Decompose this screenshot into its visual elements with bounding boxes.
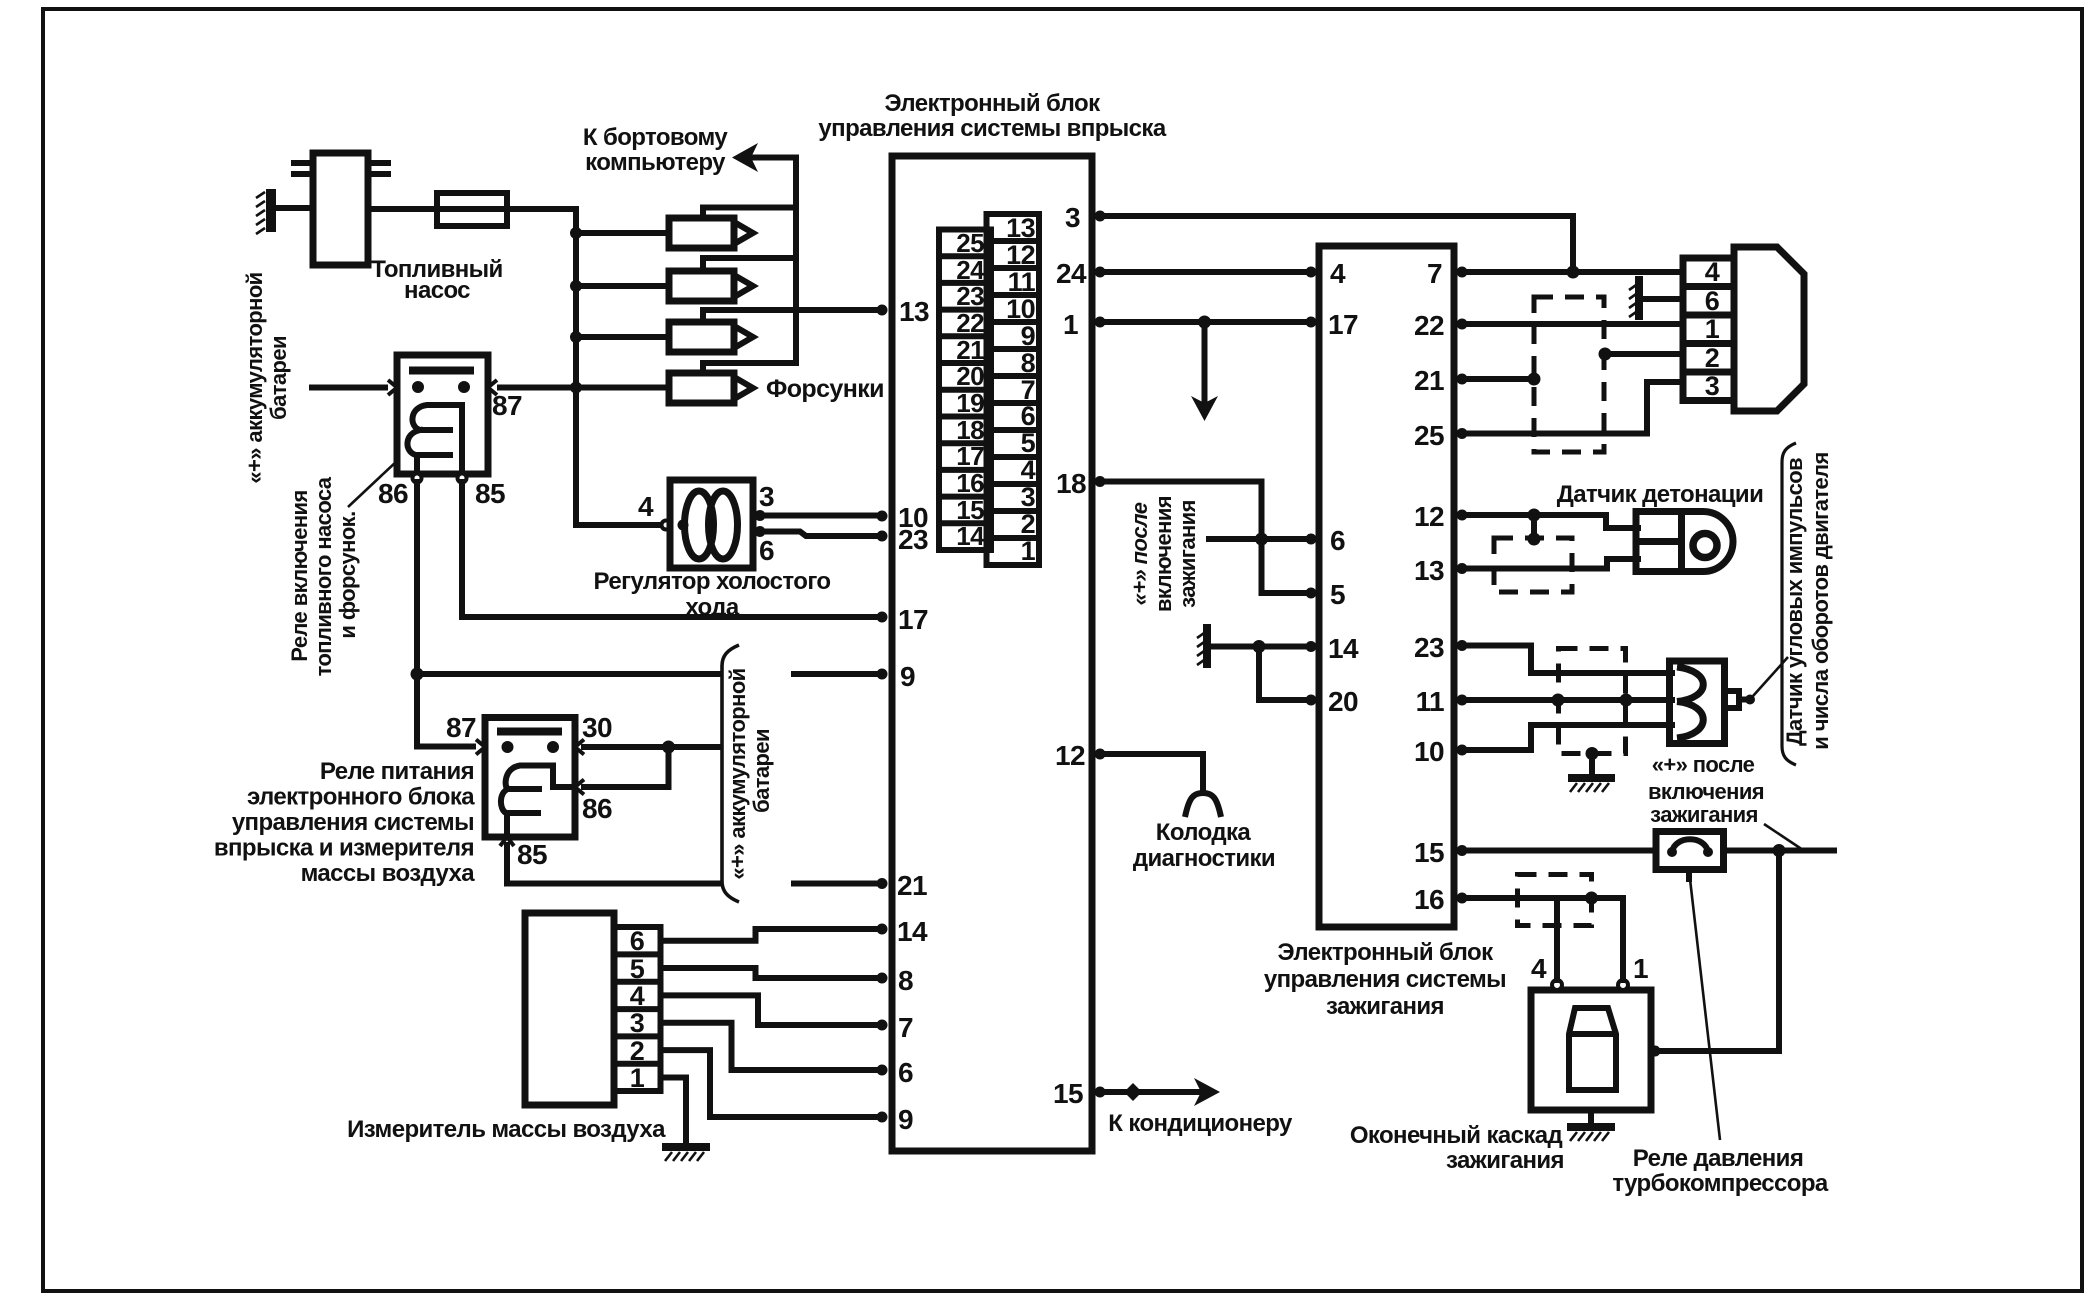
wire ground to fuel pump: [270, 205, 313, 211]
svg-text:8: 8: [898, 965, 913, 996]
arrow down from pin1 wire: [1191, 322, 1218, 421]
pin 5 marker U2: [1306, 579, 1346, 610]
impulse sensor: [1670, 661, 1756, 744]
diagnostic connector symbol: [1185, 793, 1221, 817]
svg-text:и форсунок.: и форсунок.: [335, 511, 360, 638]
svg-text:Колодка: Колодка: [1156, 819, 1252, 846]
pin 20 marker U2: [1306, 686, 1358, 717]
svg-text:1: 1: [1063, 309, 1078, 340]
wire meter pin2 to ECU pin9: [661, 1050, 879, 1117]
label Датчик угловых импульсов и числа оборотов двигателя (rotated): [1782, 452, 1833, 749]
svg-text:зажигания: зажигания: [1326, 993, 1444, 1020]
connector mark on A/C wire: [1124, 1083, 1142, 1101]
svg-text:22: 22: [1414, 310, 1444, 341]
svg-text:Реле питания: Реле питания: [320, 758, 474, 785]
label Оконечный каскад зажигания: [1350, 1122, 1564, 1174]
wire U2 pin11 to impulse sensor: [1462, 697, 1672, 703]
node pin16 branch: [1585, 892, 1598, 905]
svg-text:4: 4: [630, 981, 645, 1011]
pin 12 marker U1 right: [1055, 740, 1105, 771]
shield dashed box 3: [1559, 649, 1626, 754]
label Измеритель массы воздуха: [347, 1116, 666, 1143]
pin 23 marker U2 right: [1414, 632, 1467, 663]
svg-text:управления системы: управления системы: [232, 809, 474, 836]
svg-text:25: 25: [1414, 420, 1444, 451]
node turbo relay output: [1773, 844, 1786, 857]
wire relay 87 to injector 4 feed: [497, 385, 669, 391]
svg-text:86: 86: [582, 793, 612, 824]
svg-text:К кондиционеру: К кондиционеру: [1108, 1110, 1293, 1137]
svg-text:16: 16: [1414, 884, 1444, 915]
svg-text:24: 24: [1056, 258, 1087, 289]
pin 4 label final stage: [1531, 953, 1547, 984]
label «+» аккумуляторной батареи (bracket): [725, 668, 774, 879]
wire U1 pin15 to air conditioner: [1100, 1089, 1206, 1095]
pin 11 marker U2 right: [1416, 686, 1468, 717]
svg-text:1: 1: [1021, 536, 1036, 566]
svg-text:электронного блока: электронного блока: [247, 784, 475, 811]
svg-text:1: 1: [1705, 314, 1720, 344]
wire meter pin5 to ECU pin8: [661, 968, 879, 978]
wire U2 pin10 to impulse sensor: [1462, 725, 1672, 750]
node bus-inj4: [570, 382, 582, 394]
svg-text:«+» после: «+» после: [1652, 752, 1755, 777]
svg-text:управления системы впрыска: управления системы впрыска: [818, 115, 1166, 142]
label «+» после включения зажигания (rotated): [1127, 496, 1200, 612]
svg-text:Оконечный каскад: Оконечный каскад: [1350, 1122, 1563, 1149]
svg-text:1: 1: [1633, 953, 1648, 984]
ground final stage: [1570, 1110, 1611, 1141]
node bus-inj1: [570, 227, 582, 239]
svg-text:87: 87: [492, 390, 522, 421]
svg-text:25: 25: [956, 228, 984, 258]
node K2 86-30 junction: [662, 741, 675, 754]
node pin7/pin3 junction: [1567, 266, 1580, 279]
svg-text:3: 3: [759, 481, 774, 512]
pin 3 marker U1 right: [1065, 202, 1105, 233]
shield dashed box 4: [1518, 875, 1592, 926]
svg-text:6: 6: [1330, 525, 1345, 556]
pin 87 label K2: [446, 712, 476, 743]
wire U2 pin22 to connector pin1: [1462, 321, 1683, 327]
wire injector output bus to on-board computer: [748, 158, 796, 364]
node relay1-86 branch: [411, 668, 424, 681]
svg-text:Реле включения: Реле включения: [287, 490, 312, 661]
SEC-BOTTOM: [214, 645, 1661, 1174]
wire U2 pin12 to knock sensor: [1462, 515, 1638, 528]
wire K2 pin85 to ECU pin21: [507, 845, 878, 884]
bracket battery plus: [722, 645, 739, 902]
pin 1 marker U1 right: [1063, 309, 1105, 340]
svg-text:включения: включения: [1151, 496, 1176, 612]
svg-text:15: 15: [1053, 1078, 1083, 1109]
pin 85 label K2: [517, 839, 547, 870]
svg-text:7: 7: [1427, 258, 1442, 289]
svg-text:17: 17: [898, 604, 928, 635]
svg-text:14: 14: [897, 916, 928, 947]
pin 10 marker U2 right: [1414, 736, 1467, 767]
svg-text:15: 15: [1414, 837, 1444, 868]
node pin14 ground branch: [1253, 640, 1266, 653]
pin 14 marker U2: [1306, 633, 1359, 664]
svg-text:4: 4: [1021, 455, 1036, 485]
label Реле давления турбокомпрессора: [1612, 1145, 1829, 1197]
svg-text:3: 3: [1065, 202, 1080, 233]
leader from label to wire: [1764, 824, 1803, 850]
pin 12 marker U2 right: [1414, 501, 1467, 532]
SEC-MID: [1100, 216, 1573, 1137]
pin 85 label K1: [475, 478, 505, 509]
injector 4: [669, 363, 796, 403]
svg-text:Электронный блок: Электронный блок: [885, 90, 1102, 117]
svg-text:Измеритель массы воздуха: Измеритель массы воздуха: [347, 1116, 666, 1143]
connector body polygon: [1734, 247, 1804, 411]
svg-text:21: 21: [1414, 365, 1444, 396]
svg-text:Регулятор холостого: Регулятор холостого: [594, 568, 831, 595]
svg-text:12: 12: [1055, 740, 1085, 771]
pin 13 marker U2 right: [1414, 555, 1467, 586]
svg-text:зажигания: зажигания: [1650, 802, 1758, 827]
svg-text:Реле давления: Реле давления: [1633, 1145, 1803, 1172]
pin 7 marker U1: [877, 1012, 914, 1043]
wire ground to U2 pin14: [1210, 644, 1313, 650]
pin 10 marker U1: [877, 502, 928, 533]
arrow to on-board computer: [732, 143, 758, 172]
wire battery plus to relay 1: [312, 385, 390, 391]
callout line impulse sensor: [1753, 657, 1788, 696]
svg-text:массы воздуха: массы воздуха: [301, 860, 476, 887]
svg-text:12: 12: [1414, 501, 1444, 532]
ECU U2 ignition control unit: [1319, 246, 1454, 927]
ground at fuel pump: [256, 189, 271, 234]
node bus-inj2: [570, 280, 582, 292]
node shield3 ground: [1586, 747, 1599, 760]
node bus-inj3: [570, 331, 582, 343]
svg-text:5: 5: [630, 954, 645, 984]
svg-text:5: 5: [1021, 428, 1036, 458]
node on shield box 2: [1528, 533, 1541, 546]
svg-text:хода: хода: [685, 594, 740, 621]
relay K2 power supply relay: [476, 718, 584, 847]
pin 30 label K2: [582, 712, 612, 743]
wire U2 pin23 to impulse sensor: [1462, 646, 1672, 674]
wire meter pin1 to ground: [661, 1078, 687, 1146]
svg-text:«+» аккумуляторной: «+» аккумуляторной: [725, 668, 750, 879]
svg-text:4: 4: [1531, 953, 1547, 984]
SEC-ECU1: [818, 90, 1166, 1151]
relay K1 fuel pump and injectors relay: [388, 355, 497, 483]
wire battery plus row to ECU pin 9: [417, 671, 878, 677]
pin 9b marker U1: [877, 1104, 914, 1135]
label Реле включения топливного насоса и форсунок: [287, 461, 397, 676]
pin 6 label regulator: [759, 535, 774, 566]
svg-text:диагностики: диагностики: [1133, 845, 1275, 872]
wire K2 pin30 to battery bracket: [584, 744, 720, 750]
label Реле питания электронного блока управления системы впрыска и измерителя массы воздуха: [214, 758, 475, 887]
svg-text:4: 4: [638, 491, 654, 522]
fuel pump: [294, 153, 388, 265]
label К бортовому компьютеру: [583, 124, 728, 176]
svg-text:11: 11: [1008, 267, 1036, 297]
shield dashed box 1: [1534, 297, 1604, 452]
svg-text:6: 6: [1705, 286, 1720, 316]
svg-text:зажигания: зажигания: [1175, 500, 1200, 608]
pin 7 marker U2 right: [1427, 258, 1467, 289]
svg-text:3: 3: [1705, 371, 1720, 401]
label Датчик детонации: [1557, 481, 1763, 508]
svg-text:10: 10: [1414, 736, 1444, 767]
svg-text:турбокомпрессора: турбокомпрессора: [1612, 1170, 1829, 1197]
svg-text:12: 12: [1006, 240, 1035, 270]
label Электронный блок управления системы впрыска: [818, 90, 1166, 142]
svg-text:7: 7: [898, 1012, 913, 1043]
wire U1 pin24 to U2 pin4: [1100, 269, 1313, 275]
pin 23 marker U1: [877, 524, 928, 555]
wire U1 pin18 to U2 pins 6 and 5: [1100, 482, 1313, 594]
wire injector 3 output to ECU pin 13: [703, 307, 878, 313]
svg-text:Датчик детонации: Датчик детонации: [1557, 481, 1763, 508]
wire U1 pin12 to diagnostic connector: [1100, 754, 1203, 788]
svg-text:4: 4: [1705, 257, 1720, 287]
label Топливный насос: [371, 256, 502, 304]
leader turbo relay to its label: [1690, 879, 1720, 1140]
wire ground to connector pin6: [1642, 296, 1683, 302]
turbo pressure relay switch: [1656, 832, 1724, 880]
wire U1 pin1 to U2 pin17: [1100, 319, 1313, 325]
svg-text:Датчик угловых импульсов: Датчик угловых импульсов: [1782, 458, 1807, 746]
svg-text:8: 8: [1021, 348, 1036, 378]
ground at connector pin6: [1629, 280, 1639, 317]
svg-text:Форсунки: Форсунки: [766, 375, 884, 403]
pin 17 marker U2: [1306, 309, 1358, 340]
svg-text:23: 23: [1414, 632, 1444, 663]
svg-text:компьютеру: компьютеру: [585, 149, 726, 176]
wire U1 pin3 to sensor connector branch: [1100, 216, 1573, 272]
svg-text:насос: насос: [404, 277, 470, 304]
wire U2 pin13 to knock sensor: [1462, 559, 1638, 569]
pin 4 label regulator: [638, 491, 654, 522]
pin 16 marker U2 right: [1414, 884, 1467, 915]
wire meter pin3 to ECU pin6: [661, 1023, 879, 1070]
svg-text:и числа оборотов двигателя: и числа оборотов двигателя: [1808, 452, 1833, 749]
svg-text:19: 19: [956, 388, 984, 418]
wire shield stub down: [1531, 515, 1537, 538]
svg-text:6: 6: [1021, 401, 1036, 431]
wire U2 pin15 through turbo relay: [1462, 848, 1834, 854]
pin 21 marker U1: [877, 870, 927, 901]
wire meter pin4 to ECU pin7: [661, 995, 879, 1025]
pin 6 marker U2: [1306, 525, 1346, 556]
wire injector 1 feed: [576, 230, 669, 236]
connector pin table right column pins 13-1: [987, 213, 1040, 566]
shield dashed box 2: [1494, 538, 1572, 592]
svg-text:6: 6: [759, 535, 774, 566]
svg-text:22: 22: [956, 308, 984, 338]
wire U2 pin16 to final stage: [1462, 898, 1623, 980]
node pin18 branch: [1255, 533, 1268, 546]
pin 86 label K2: [582, 793, 612, 824]
svg-text:14: 14: [1328, 633, 1359, 664]
svg-text:9: 9: [898, 1104, 913, 1135]
pin 4 marker U2: [1306, 258, 1347, 289]
svg-text:6: 6: [630, 926, 645, 956]
pin 22 marker U2 right: [1414, 310, 1467, 341]
label Регулятор холостого хода: [594, 568, 831, 621]
svg-text:батареи: батареи: [749, 729, 774, 813]
svg-text:2: 2: [630, 1036, 644, 1066]
wire injector 3 feed: [576, 334, 669, 340]
pin 1 label final stage: [1633, 953, 1648, 984]
svg-text:5: 5: [1330, 579, 1345, 610]
node on pin1 wire: [1198, 316, 1211, 329]
ground under shield 3: [1570, 754, 1611, 793]
wire branch to U2 pin20: [1259, 647, 1313, 701]
ECU U1 injection control unit: [892, 156, 1092, 1151]
svg-text:«+» аккумуляторной: «+» аккумуляторной: [242, 272, 267, 483]
injector 2: [669, 258, 796, 301]
svg-text:23: 23: [898, 524, 928, 555]
svg-text:включения: включения: [1648, 779, 1764, 804]
svg-text:17: 17: [956, 441, 984, 471]
svg-text:23: 23: [956, 281, 984, 311]
wire meter pin6 to ECU pin14: [661, 929, 879, 941]
fuse: [437, 193, 507, 226]
svg-text:2: 2: [1021, 509, 1035, 539]
svg-text:14: 14: [956, 521, 985, 551]
svg-text:зажигания: зажигания: [1446, 1147, 1564, 1174]
svg-text:30: 30: [582, 712, 612, 743]
svg-text:11: 11: [1416, 686, 1444, 717]
SEC-RIGHT: [1462, 247, 1834, 1197]
pin 13 marker U1: [877, 296, 929, 327]
svg-text:топливного насоса: топливного насоса: [311, 476, 336, 676]
wire U2 pin25 to connector pin3: [1462, 382, 1683, 434]
node pin11 shield left: [1552, 694, 1565, 707]
wire U2 pin21 to shield: [1462, 376, 1534, 382]
svg-text:16: 16: [956, 468, 984, 498]
pin 25 marker U2 right: [1414, 420, 1467, 451]
pin 87 label K1: [492, 390, 522, 421]
injector 3: [669, 310, 753, 352]
arrow to air conditioner: [1194, 1078, 1220, 1106]
svg-text:Электронный блок: Электронный блок: [1278, 939, 1495, 966]
svg-text:85: 85: [517, 839, 547, 870]
wire injector 2 feed: [576, 283, 669, 289]
svg-text:9: 9: [1021, 321, 1036, 351]
bracket for impulse sensor label: [1782, 443, 1796, 765]
knock sensor: [1636, 512, 1733, 572]
svg-text:«+» после: «+» после: [1127, 502, 1152, 605]
wire pump to fuse to bus: [368, 206, 576, 212]
ground at U2 pin 14: [1197, 628, 1207, 665]
svg-text:10: 10: [1006, 294, 1035, 324]
svg-text:4: 4: [1330, 258, 1346, 289]
svg-text:К бортовому: К бортовому: [583, 124, 728, 151]
pin 9a marker U1: [877, 661, 916, 692]
node shield pin2: [1599, 348, 1612, 361]
pin 6 marker U1: [877, 1057, 914, 1088]
svg-text:86: 86: [378, 478, 408, 509]
pin 86 label K1: [378, 478, 408, 509]
wire U2 pin7 to connector pin4: [1462, 269, 1683, 275]
pin 21 marker U2 right: [1414, 365, 1467, 396]
svg-text:3: 3: [1021, 482, 1036, 512]
svg-text:87: 87: [446, 712, 476, 743]
svg-text:1: 1: [630, 1063, 645, 1093]
injector 1: [669, 208, 796, 249]
svg-text:13: 13: [899, 296, 929, 327]
node pin21 shield: [1528, 373, 1541, 386]
node pin11 shield right: [1620, 694, 1633, 707]
svg-text:2: 2: [1705, 343, 1719, 373]
wire shield to connector pin2: [1605, 351, 1683, 357]
pin 15 marker U1 right: [1053, 1078, 1105, 1109]
pin 14 marker U1: [877, 916, 928, 947]
label Колодка диагностики: [1133, 819, 1275, 872]
wire relay1 85 to ECU pin 17: [462, 482, 878, 617]
wire turbo relay node down to final stage: [1659, 851, 1779, 1052]
label Форсунки: [766, 375, 884, 403]
wire relay1 86 down to relay2: [417, 482, 477, 747]
svg-text:впрыска и измерителя: впрыска и измерителя: [214, 835, 474, 862]
connector pin table left column pins 25-14: [939, 228, 991, 551]
node pin12 shield: [1528, 509, 1541, 522]
svg-text:батареи: батареи: [266, 336, 291, 420]
wire K2 pin86 up to pin30 wire: [584, 747, 669, 787]
label К кондиционеру: [1108, 1110, 1293, 1137]
SEC-LEFT: [242, 124, 884, 747]
svg-text:13: 13: [1006, 213, 1035, 243]
pin 24 marker U1 right: [1056, 258, 1105, 289]
svg-text:13: 13: [1414, 555, 1444, 586]
wire main bus vertical: [573, 209, 579, 525]
pin 15 marker U2 right: [1414, 837, 1467, 868]
svg-text:9: 9: [900, 661, 915, 692]
svg-text:17: 17: [1328, 309, 1358, 340]
SEC-ECU2: [1264, 246, 1506, 1020]
ground air mass meter: [665, 1147, 706, 1161]
final ignition stage: [1531, 980, 1661, 1110]
pin 3 label regulator: [759, 481, 774, 512]
pin 18 marker U1 right: [1056, 468, 1105, 499]
svg-text:85: 85: [475, 478, 505, 509]
svg-text:21: 21: [897, 870, 927, 901]
svg-text:управления системы: управления системы: [1264, 966, 1506, 993]
svg-text:20: 20: [956, 361, 984, 391]
connector pin boxes 4 6 1 2 3: [1683, 257, 1734, 401]
label «+» после включения зажигания (right): [1648, 752, 1764, 827]
pin 8 marker U1: [877, 965, 914, 996]
label Электронный блок управления системы зажигания: [1264, 939, 1506, 1020]
pin 17 marker U1: [877, 604, 928, 635]
svg-text:20: 20: [1328, 686, 1358, 717]
air mass meter: [525, 913, 661, 1105]
wire ignition plus stub: [1209, 536, 1262, 542]
svg-text:6: 6: [898, 1057, 913, 1088]
svg-text:18: 18: [1056, 468, 1086, 499]
svg-text:3: 3: [630, 1008, 645, 1038]
idle speed regulator: [576, 480, 878, 568]
label «+» аккумуляторной батареи (left): [242, 272, 291, 483]
